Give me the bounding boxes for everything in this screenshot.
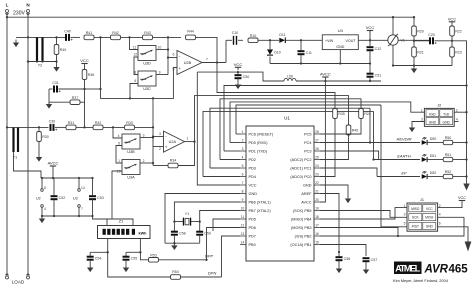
svg-text:2: 2 — [143, 159, 145, 163]
wire junction to U3B pin 4 — [113, 127, 122, 138]
svg-text:4: 4 — [118, 134, 120, 138]
junction node bias tap — [99, 36, 101, 38]
wire to C20 — [414, 40, 429, 42]
wire bus pin4 to R24 — [220, 99, 361, 160]
svg-text:DPN: DPN — [208, 271, 217, 276]
wire R40 top lead — [56, 37, 58, 44]
svg-text:1: 1 — [404, 204, 406, 208]
wire pin2 stub — [230, 142, 240, 144]
svg-text:MISO: MISO — [411, 207, 420, 211]
wire D11 to U4 — [286, 39, 323, 41]
svg-text:(ADC2) PC2: (ADC2) PC2 — [290, 158, 311, 162]
crystal Y1 — [174, 212, 199, 226]
wire R20 top lead — [413, 17, 415, 26]
ground below C54 — [87, 265, 93, 273]
svg-text:D51: D51 — [430, 154, 437, 158]
wire U2B output down to bus to R35 — [217, 63, 335, 109]
ground crystal — [171, 243, 177, 250]
svg-text:R52: R52 — [445, 170, 452, 174]
svg-text:SCK: SCK — [412, 216, 419, 220]
resistor R44 — [186, 30, 196, 40]
svg-text:C40: C40 — [64, 29, 71, 33]
digital pot U3A — [122, 160, 140, 180]
svg-text:8: 8 — [134, 70, 136, 74]
wire C11 bottom lead — [300, 55, 302, 64]
wire D52 to R52 — [427, 176, 443, 178]
svg-text:RxD: RxD — [429, 112, 436, 116]
svg-text:C10: C10 — [232, 31, 239, 35]
resistor R50 — [443, 136, 453, 145]
svg-text:GND: GND — [429, 120, 437, 124]
capacitor C55 — [123, 257, 138, 261]
svg-text:18: 18 — [315, 215, 319, 219]
wire pin11 down — [213, 219, 240, 231]
svg-text:22: 22 — [315, 181, 319, 185]
wire T2 bottom row — [28, 61, 57, 63]
svg-text:D52: D52 — [430, 171, 437, 175]
wire bias node to tap — [85, 88, 101, 90]
ground below C31 — [46, 101, 52, 109]
svg-text:R32: R32 — [95, 121, 102, 125]
svg-text:C12: C12 — [375, 47, 382, 51]
wire C53 bottom — [92, 200, 94, 217]
svg-text:GND: GND — [303, 184, 312, 188]
svg-text:R23: R23 — [455, 50, 462, 54]
wire N rail — [27, 13, 29, 277]
capacitor C57 — [363, 258, 378, 262]
wire J2 pin2 to rail — [454, 111, 466, 113]
svg-text:3: 3 — [159, 132, 161, 136]
wire pin3 stub — [224, 150, 240, 152]
wire R42 to R43 — [121, 36, 143, 38]
digital pot U3D — [138, 46, 156, 66]
wire VCC to R36 — [84, 67, 86, 70]
wire crystal ground rail — [165, 242, 200, 244]
svg-text:230V: 230V — [13, 11, 25, 17]
wire power block top rail — [42, 177, 93, 179]
wire junction to U3D pin 11 — [130, 37, 139, 49]
wire R22 to R23 — [451, 36, 453, 47]
power symbol AVCC — [320, 71, 331, 81]
svg-text:VCC: VCC — [448, 16, 457, 21]
svg-text:C58: C58 — [179, 232, 186, 236]
wire C59 bottom — [199, 235, 201, 243]
power symbol VCC at J1 — [458, 196, 466, 201]
junction REVDIR — [369, 141, 371, 143]
resistor R30 — [37, 132, 49, 142]
resistor R45 — [346, 125, 358, 135]
svg-text:R45: R45 — [352, 128, 359, 132]
junctions Y1 — [173, 220, 201, 222]
junction AVCC — [324, 80, 326, 82]
wire C53 top — [92, 178, 94, 196]
wire R36 to bias node — [84, 80, 86, 90]
wire PSU ground rail — [270, 63, 370, 65]
junction R20 R21 — [413, 40, 415, 42]
svg-text:R30: R30 — [42, 135, 49, 139]
wire R34 feedback to output — [178, 142, 195, 166]
wire AVCC to U1 pin 20 — [320, 81, 325, 202]
wire sense node down right edge rail — [452, 41, 467, 184]
wire R43 to R44 — [153, 36, 182, 38]
svg-text:R53: R53 — [150, 253, 157, 257]
power pins U3 — [73, 178, 85, 216]
wire D50 to R50 — [427, 142, 443, 144]
svg-text:VCC: VCC — [458, 196, 466, 200]
svg-text:(/SS) PB2: (/SS) PB2 — [295, 235, 312, 239]
svg-text:4: 4 — [44, 207, 46, 211]
junctions power rail — [41, 177, 94, 179]
resistor R32 — [93, 121, 103, 130]
wire bus U2A out to R45 — [195, 96, 349, 142]
junction U3B tap — [112, 126, 114, 128]
svg-text:28: 28 — [315, 130, 319, 134]
svg-text:23: 23 — [315, 172, 319, 176]
junctions top rail — [392, 16, 415, 18]
svg-text:7: 7 — [206, 57, 208, 61]
wire pin5 stub — [210, 167, 240, 169]
svg-text:3: 3 — [404, 213, 406, 217]
wire U3D pin 12 to U3C pin 8 — [134, 57, 138, 75]
svg-text:R40: R40 — [60, 48, 67, 52]
ground at mains neutral row — [13, 40, 19, 48]
wire R44 to U2B output feedback — [196, 37, 218, 62]
wire U3C pin 6 down to bias line — [130, 84, 138, 99]
svg-text:5: 5 — [404, 222, 406, 226]
junction C54 — [107, 251, 109, 253]
VCC output symbol — [366, 25, 375, 34]
wire U3A pin 2 to chain — [140, 162, 153, 164]
svg-text:17: 17 — [315, 223, 319, 227]
wire J2 pin3 to ground — [412, 122, 424, 128]
capacitor C20 — [428, 33, 436, 45]
svg-text:J2: J2 — [437, 104, 441, 108]
svg-text:/RST: /RST — [412, 225, 419, 229]
wire pin1 stub — [236, 133, 240, 135]
power symbol AVCC block — [48, 160, 59, 178]
terminal N — [26, 10, 29, 16]
wire pin26 jog to EARTH row — [320, 151, 379, 160]
svg-text:Kim Meyer, Atmel Finland, 2004: Kim Meyer, Atmel Finland, 2004 — [393, 278, 449, 283]
svg-text:J1: J1 — [420, 198, 424, 202]
svg-text:Y1: Y1 — [185, 212, 189, 216]
wire C30 to R31 — [55, 126, 66, 128]
wire C10 down to U2B output — [225, 40, 227, 62]
svg-text:C30: C30 — [49, 119, 56, 123]
svg-text:6: 6 — [242, 172, 244, 176]
digital pot U3B — [122, 134, 140, 154]
svg-text:2: 2 — [159, 147, 161, 151]
svg-text:25: 25 — [315, 155, 319, 159]
wire L rail — [6, 13, 8, 277]
svg-text:LOAD: LOAD — [12, 280, 25, 285]
wire VCC distribution to L50 — [197, 72, 284, 81]
wire node to U2A pin3 — [153, 136, 164, 138]
wire XTAL2 pin10 to Y1 — [200, 211, 240, 220]
resistor R35 — [333, 109, 345, 119]
svg-text:C52: C52 — [59, 196, 66, 200]
wire bus pin1 RESET — [236, 105, 381, 134]
svg-text:R50: R50 — [445, 136, 452, 140]
wire T1 return to AVCC rail — [14, 152, 42, 178]
svg-text:C31: C31 — [52, 81, 59, 85]
wire VOUT rail — [358, 39, 429, 41]
svg-text:465: 465 — [449, 264, 469, 276]
wire MOSI jog — [320, 228, 398, 237]
VCC symbol at C50 — [234, 62, 243, 71]
ground below R21 — [411, 66, 417, 74]
svg-text:PB0: PB0 — [249, 243, 256, 247]
svg-text:8: 8 — [44, 186, 46, 190]
wire VCC stub — [369, 31, 371, 41]
LED D52 — [422, 171, 437, 179]
svg-text:U3D: U3D — [143, 62, 151, 66]
capacitor C30 — [49, 119, 57, 130]
svg-text:1: 1 — [421, 108, 423, 112]
junctions power bottom rail — [53, 215, 94, 217]
ground below C50 — [235, 82, 241, 90]
svg-text:PD4: PD4 — [249, 175, 256, 179]
svg-text:R31: R31 — [68, 121, 75, 125]
resistor R51 — [443, 153, 453, 162]
svg-text:4: 4 — [242, 155, 244, 159]
junction DPP — [205, 259, 207, 261]
varistor V1 — [388, 34, 405, 46]
junction bias node — [83, 88, 85, 90]
junctions sense bottom rail — [392, 64, 415, 66]
svg-text:R51: R51 — [445, 153, 452, 157]
svg-text:11: 11 — [133, 45, 137, 49]
svg-text:(MOSI) PB3: (MOSI) PB3 — [291, 226, 311, 230]
junctions PSU ground rail — [300, 62, 342, 64]
resistor R33 — [125, 121, 135, 130]
junction D10 tap — [269, 39, 271, 41]
svg-text:R44: R44 — [187, 30, 194, 34]
svg-text:13: 13 — [241, 232, 245, 236]
power pins U2 — [36, 178, 46, 216]
junction C51 on AVCC rail — [369, 80, 371, 82]
svg-text:PC5: PC5 — [304, 133, 311, 137]
wire pin4 stub — [220, 159, 240, 161]
inductor L50 — [284, 75, 296, 81]
LED D51 — [422, 154, 437, 162]
svg-text:C50: C50 — [243, 75, 250, 79]
svg-text:27: 27 — [315, 138, 319, 142]
resistor R52 — [443, 170, 453, 179]
resistor R43 — [143, 31, 153, 40]
wire T2 top row — [16, 36, 66, 38]
svg-text:PD2: PD2 — [249, 158, 256, 162]
wire Y1 left to C58 — [173, 219, 175, 231]
svg-text:9: 9 — [242, 198, 244, 202]
wire R32 to R33 — [103, 126, 125, 128]
wire bus pin6 down to EARTH row — [373, 111, 375, 159]
LCD display Z1 — [98, 219, 151, 238]
wire U3C pin 9 to feedback vertical — [156, 74, 168, 76]
junction feedback node — [167, 36, 169, 38]
resistor R53 — [149, 253, 159, 262]
wire VCC down to U1 pin 7 — [197, 72, 240, 185]
wire C12 top lead — [369, 40, 371, 47]
ground below C55 — [123, 265, 129, 273]
logo ATMEL — [394, 262, 422, 275]
wire R23 bottom lead — [451, 57, 453, 66]
resistor R37 — [70, 96, 80, 105]
svg-text:R22: R22 — [455, 29, 462, 33]
zener diode D10 — [267, 49, 281, 55]
junction C55 — [139, 251, 141, 253]
wire U2A output — [185, 141, 195, 143]
svg-text:TxD: TxD — [443, 112, 450, 116]
svg-text:U1: U1 — [284, 116, 290, 121]
svg-text:9: 9 — [159, 70, 161, 74]
svg-text:2: 2 — [242, 138, 244, 142]
junction L rail / T1 — [6, 126, 8, 128]
svg-text:(SCK) PB5: (SCK) PB5 — [293, 209, 312, 213]
svg-text:U3B: U3B — [127, 150, 135, 154]
wire R41 to R42 — [94, 36, 111, 38]
svg-text:D11: D11 — [279, 33, 285, 37]
svg-text:U2: U2 — [36, 197, 41, 201]
wire C31 to bias node — [59, 88, 85, 90]
capacitor C40 — [64, 29, 72, 41]
wire U3A pin 13 down — [112, 171, 122, 219]
junction U2A output — [193, 140, 195, 142]
wire to U2B inverting input — [168, 57, 177, 59]
svg-text:C59: C59 — [204, 232, 211, 236]
junction VCC node — [369, 39, 371, 41]
resistor R22 — [450, 26, 462, 36]
svg-text:R54: R54 — [172, 270, 179, 274]
junction R30 top — [38, 126, 40, 128]
wire C55 bottom — [125, 260, 127, 265]
wire C56 bottom — [338, 261, 340, 266]
wire LED row REVDIR — [320, 142, 420, 144]
wire C58 bottom — [173, 235, 175, 243]
svg-text:3: 3 — [242, 147, 244, 151]
svg-text:12: 12 — [133, 53, 137, 57]
capacitor C52 — [51, 196, 66, 200]
svg-text:AVCC: AVCC — [301, 201, 312, 205]
svg-text:VCC: VCC — [426, 207, 433, 211]
svg-text:1: 1 — [118, 159, 120, 163]
connector J1 — [404, 198, 441, 231]
terminal LOAD right — [26, 274, 29, 280]
svg-text:V1: V1 — [401, 39, 405, 43]
ground below R30 — [36, 154, 42, 162]
svg-text:5: 5 — [118, 141, 120, 145]
wire C51 bottom lead — [369, 77, 371, 81]
resistor R10 — [248, 34, 258, 43]
svg-text:20: 20 — [315, 198, 319, 202]
ground below C56 — [336, 266, 342, 274]
junction C11 tap — [300, 39, 302, 41]
svg-text:C54: C54 — [95, 257, 102, 261]
svg-text:15: 15 — [315, 240, 319, 244]
svg-text:C55: C55 — [131, 257, 138, 261]
svg-text:R37: R37 — [72, 96, 79, 100]
wire bus pin5 down to REVDIR row — [369, 108, 371, 142]
ground power block — [39, 216, 45, 223]
capacitor C12 — [367, 47, 382, 51]
ground at U1 GND pin 22 — [345, 196, 351, 203]
arrow off-page bottom right — [465, 242, 472, 252]
svg-text:U3: U3 — [73, 197, 78, 201]
svg-text:C11: C11 — [306, 51, 312, 55]
wire R33 right lead — [135, 126, 154, 128]
connector J2 — [421, 104, 458, 127]
LED D50 — [422, 137, 437, 145]
svg-text:1: 1 — [242, 130, 244, 134]
svg-text:R36: R36 — [88, 73, 95, 77]
resistor R20 — [412, 26, 424, 36]
svg-text:12: 12 — [241, 223, 245, 227]
svg-text:PD1 (TXD): PD1 (TXD) — [249, 150, 268, 154]
svg-text:10: 10 — [241, 206, 245, 210]
wire to Z1 right area — [107, 219, 133, 226]
svg-text:R10: R10 — [250, 34, 257, 38]
resistor R31 — [66, 121, 76, 130]
junction R22 R23 — [451, 40, 453, 42]
svg-text:C57: C57 — [371, 258, 378, 262]
wire bias node down to signal row — [84, 89, 86, 127]
wire R37 left lead — [49, 101, 70, 103]
resistor R23 — [450, 47, 462, 57]
wire V1 top lead — [392, 17, 394, 35]
svg-text:ATMEL: ATMEL — [395, 264, 421, 274]
wire R20 to R21 — [413, 36, 415, 47]
wire C31 left down — [48, 89, 50, 101]
junction R50 rail — [465, 141, 467, 143]
svg-text:kWh: kWh — [138, 231, 147, 235]
wire Y1 right to C59 — [199, 219, 201, 231]
svg-text:VCC: VCC — [249, 184, 257, 188]
svg-text:4: 4 — [439, 213, 441, 217]
svg-text:VCC: VCC — [234, 62, 243, 67]
svg-text:PD0 (RXD): PD0 (RXD) — [249, 141, 269, 145]
op-amp U2B — [173, 51, 209, 75]
junction N / T2 row — [27, 36, 29, 38]
junction pot chain — [152, 97, 154, 99]
svg-text:GND: GND — [249, 192, 258, 196]
wire AREF to C56 — [320, 194, 339, 253]
wire D10 top lead — [269, 40, 271, 49]
svg-text:R42: R42 — [112, 31, 119, 35]
wire U3D pin 10 to feedback node — [156, 49, 168, 51]
wire pin6 stub — [203, 176, 240, 178]
wire R34 left lead — [153, 165, 168, 167]
svg-text:VCC: VCC — [80, 58, 89, 63]
wire R45 to pin 25 — [320, 135, 349, 160]
svg-text:MOSI: MOSI — [425, 216, 433, 220]
junction U3A pin2 — [152, 162, 154, 164]
wire R21 bottom lead — [413, 57, 415, 67]
ground below C57 — [363, 267, 369, 275]
wire pin12 to DPP — [207, 228, 241, 260]
wire R50 to rail — [453, 142, 467, 144]
wire C40 to R41 — [71, 36, 81, 38]
svg-text:PB7 (XTAL2): PB7 (XTAL2) — [249, 209, 272, 213]
wire C10 to R10 — [238, 39, 243, 41]
capacitor C53 — [89, 196, 104, 200]
svg-text:+VIN: +VIN — [325, 39, 333, 43]
svg-text:PD7: PD7 — [249, 235, 256, 239]
wire U2A pin2 — [153, 146, 164, 148]
svg-text:PC4: PC4 — [304, 141, 311, 145]
capacitor C54 — [87, 257, 102, 261]
junction R40 top — [55, 36, 57, 38]
svg-text:U4: U4 — [338, 28, 344, 33]
